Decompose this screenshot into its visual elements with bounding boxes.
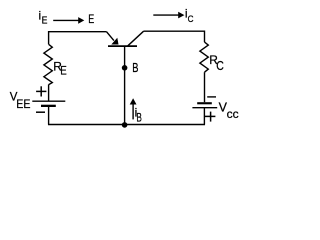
wire VCC to bottom rail <box>203 108 205 125</box>
wire top-right: from collector elbow to RC top <box>144 31 205 42</box>
resistor RE <box>44 44 52 84</box>
label iE <box>39 9 48 27</box>
battery VCC minus plate (short thick) <box>197 102 212 104</box>
transistor Q1 base bar <box>108 45 137 47</box>
wire emitter diagonal <box>107 32 114 41</box>
svg-text:C: C <box>216 59 224 73</box>
svg-text:E: E <box>60 64 67 78</box>
wire base vertical <box>124 47 126 125</box>
svg-text:E: E <box>42 15 48 26</box>
arrow iE current direction <box>53 17 84 24</box>
battery VEE minus plate (short thick) <box>41 105 56 107</box>
arrow iB current direction <box>130 98 137 119</box>
label VCC <box>219 101 239 121</box>
wire bottom rail <box>48 124 205 126</box>
svg-text:B: B <box>132 61 138 75</box>
label RE <box>53 59 67 77</box>
wire VEE to bottom rail <box>48 107 50 125</box>
svg-text:EE: EE <box>16 97 30 111</box>
node B dot <box>122 65 128 71</box>
label RC <box>209 53 224 73</box>
junction dot bottom rail <box>122 122 128 128</box>
battery VCC plus plate (long thin) <box>192 107 217 109</box>
wire RE bottom to VEE <box>48 85 50 102</box>
label iB <box>135 105 142 124</box>
battery VCC plus sign <box>205 112 215 122</box>
svg-text:cc: cc <box>227 107 239 121</box>
svg-text:C: C <box>188 14 194 25</box>
wire RC bottom to VCC <box>204 72 206 102</box>
transistor Q1 collector diagonal <box>128 31 144 46</box>
battery VEE minus sign <box>36 111 45 113</box>
wire top-left: from RE top up and right to emitter elbow <box>49 32 107 45</box>
arrow iC current direction <box>153 12 184 19</box>
label VEE <box>10 91 31 111</box>
svg-text:E: E <box>88 14 94 26</box>
label iC <box>185 7 194 25</box>
battery VEE plus sign <box>36 86 46 96</box>
svg-text:B: B <box>136 111 142 125</box>
battery VEE plus plate (long thin) <box>32 100 65 102</box>
transistor Q1 emitter arrowhead <box>111 38 118 45</box>
battery VCC minus sign <box>207 96 216 98</box>
resistor RC <box>200 42 208 72</box>
